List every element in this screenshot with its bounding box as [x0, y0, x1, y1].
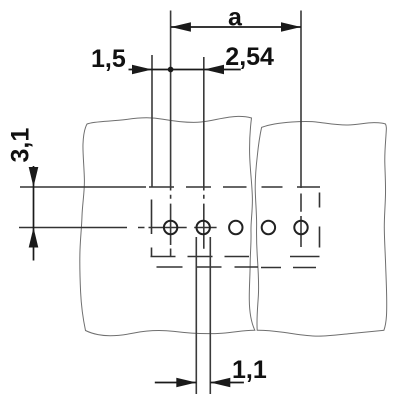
dimension 1,5: arrow pointing right at body edge — [132, 65, 152, 75]
dimension dot on hole-1 centerline — [168, 67, 174, 73]
hole 3 — [229, 221, 242, 234]
dimension 1,1: right line and arrow — [210, 382, 244, 384]
dimension 3,1: down arrow at top edge — [29, 167, 39, 187]
dimension a: line — [171, 26, 301, 28]
dimension a: right arrow — [281, 22, 301, 32]
vertical extension/centerline through hole 1 — [170, 11, 172, 257]
dashed component outline rect: right edge — [319, 193, 321, 248]
dashed component outline rect: left edge — [151, 200, 153, 257]
vertical extension line hole2 left edge (1,1 ref) — [195, 237, 197, 394]
hole 2 — [197, 221, 210, 234]
svg-text:1,1: 1,1 — [232, 356, 267, 384]
vertical extension/centerline through hole 5 — [300, 11, 302, 248]
vertical extension line at body left edge (1,5 ref) — [151, 55, 153, 187]
dimension 2,54: arrow pointing left at hole-2 centerline — [204, 65, 224, 75]
svg-text:a: a — [228, 3, 243, 31]
dashed second outline line (lower, right of break) — [261, 267, 316, 269]
dashed component outline rect: top edge (left of break) — [149, 186, 247, 188]
dashed second outline line (lower, left of break) — [157, 266, 259, 268]
horizontal centerline through holes (dash-dot) — [19, 227, 217, 229]
svg-text:2,54: 2,54 — [225, 43, 274, 71]
hole 5 — [294, 221, 307, 234]
PCB board outline left piece — [80, 116, 255, 335]
dimension 3,1: up arrow at centerline — [29, 228, 39, 248]
dashed component outline rect: bottom edge (right of break) — [290, 256, 320, 258]
dimension 3,1: vertical line — [33, 166, 35, 261]
PCB board outline right piece — [255, 121, 387, 336]
dashed component outline rect: bottom edge (left of break) — [151, 256, 250, 258]
dimension 1,5 / 2,54 shared line — [129, 69, 241, 71]
horizontal extension line at top edge level (3,1 upper ref) — [20, 186, 146, 188]
vertical extension/centerline through hole 2 — [203, 57, 205, 249]
svg-text:1,5: 1,5 — [91, 45, 126, 73]
vertical extension line hole2 right edge (1,1 ref) — [209, 237, 211, 394]
hole 1 — [164, 221, 177, 234]
svg-text:3,1: 3,1 — [7, 128, 35, 163]
dashed component outline rect: top edge (right of break) — [261, 186, 320, 188]
dimension 1,1: left line and arrow — [155, 382, 197, 384]
dimension a: left arrow — [171, 22, 191, 32]
hole 4 — [262, 221, 275, 234]
